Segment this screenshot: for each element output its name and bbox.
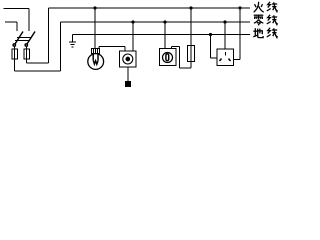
socket top slot xyxy=(224,52,226,56)
lamp filament leads xyxy=(93,54,98,61)
pull switch contact circle xyxy=(123,54,133,64)
wire socket left lead from earth xyxy=(211,35,218,59)
wire earth stub to ground xyxy=(72,35,74,43)
ground symbol bars xyxy=(69,42,76,47)
wire live bus (火线) xyxy=(49,7,251,9)
wire earth bus (地线) xyxy=(73,34,251,36)
fuse F1 body xyxy=(12,49,18,59)
junction dot socket/neutral xyxy=(223,20,226,23)
washer circle xyxy=(163,53,173,63)
junction dot fuse3/live xyxy=(189,6,192,9)
lamp bulb circle xyxy=(88,54,104,70)
switch blade 1 xyxy=(15,32,23,45)
fuse F3 body xyxy=(188,46,195,62)
wire neutral bus left drop xyxy=(60,22,62,71)
wire live bus left drop xyxy=(48,8,50,63)
wire fuse F3 drop from live xyxy=(190,8,192,46)
switch pivot 2 xyxy=(25,44,27,46)
switch tie bars xyxy=(15,38,30,41)
pull switch cord xyxy=(127,67,129,82)
lamp filament zigzag xyxy=(93,60,98,64)
wire switch to neutral xyxy=(132,22,134,51)
wire lamp to switch xyxy=(99,47,125,52)
wire neutral bus (零线) xyxy=(61,21,251,23)
socket left slot xyxy=(220,59,222,62)
wire socket right lead from live xyxy=(234,8,241,60)
label 地线 (earth wire) xyxy=(253,28,263,37)
wire supply line 2 in xyxy=(5,22,17,31)
fuse F2 body xyxy=(24,49,30,59)
wire supply line 1 in xyxy=(4,9,30,32)
pull switch handle xyxy=(126,82,131,87)
socket X1 box (three-hole) xyxy=(217,49,234,66)
wire bottom inner link to live xyxy=(27,62,49,64)
wire washer right lead to fuse F3 xyxy=(172,47,192,69)
junction dot socket/live xyxy=(238,6,241,9)
wire bottom outer link to neutral xyxy=(15,70,61,72)
wire fuse F2 lead through body xyxy=(26,46,28,63)
washer inner slot xyxy=(166,54,169,61)
junction dot socket/earth xyxy=(209,33,212,36)
lamp cap E1 xyxy=(92,49,100,54)
wire fuse F1 lead through body xyxy=(14,46,16,71)
wire washer drop from neutral xyxy=(164,22,166,49)
label 零线 (neutral wire) xyxy=(254,15,264,25)
label 火线 (live wire) xyxy=(254,2,264,12)
pull switch contact dot xyxy=(126,57,129,60)
socket right slot xyxy=(229,59,231,62)
junction dot switch/neutral xyxy=(131,20,134,23)
fuse F3 wire through xyxy=(190,46,192,62)
junction dot lamp/live xyxy=(93,6,96,9)
pull switch S2 box xyxy=(120,51,137,67)
lamp cap threads xyxy=(94,49,98,54)
junction dot washer/neutral xyxy=(163,20,166,23)
switch pivot 1 xyxy=(13,44,15,46)
wire socket top lead from neutral xyxy=(224,22,226,49)
wire lamp drop from live xyxy=(94,8,96,49)
switch blade 2 xyxy=(27,32,35,45)
washer box xyxy=(160,49,177,66)
